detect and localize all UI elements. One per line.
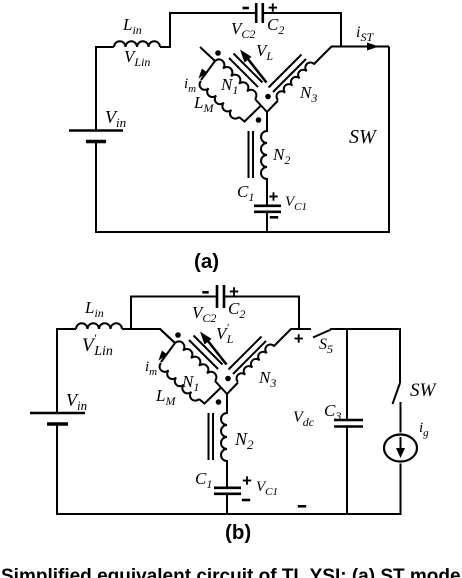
wire top-left vertical (a)	[169, 13, 171, 48]
wire left vertical upper (a)	[95, 46, 97, 130]
winding N2 (a)	[261, 131, 267, 179]
label (a)	[194, 250, 219, 273]
core bars N2 (a)	[249, 131, 254, 178]
wire top bus right segment (a)	[263, 12, 342, 14]
wire Lm bottom corner (b)	[199, 388, 221, 404]
svg-text:SW: SW	[410, 380, 438, 401]
svg-text:(a): (a)	[194, 250, 219, 273]
label + polarity of C2 (a)	[269, 3, 277, 11]
label im (b)	[145, 359, 157, 378]
winding N1 (a)	[215, 59, 256, 99]
winding N3 (b)	[237, 345, 274, 382]
switch S5 blade (b)	[313, 330, 331, 338]
svg-text:(b): (b)	[225, 521, 251, 544]
polarity dot N2 (a)	[256, 117, 262, 123]
wire junction to transformer (b)	[131, 329, 175, 343]
winding N2 (b)	[221, 413, 227, 461]
wire bottom bus (a)	[95, 231, 390, 233]
label + polarity of C2 (b)	[230, 287, 238, 295]
label N2 (b)	[234, 429, 254, 452]
core bars N3 (b)	[229, 337, 267, 375]
wire stub to N1 top (b)	[160, 329, 175, 343]
wire N3 to top corner (a)	[314, 47, 332, 65]
wire N1 to center (b)	[215, 381, 227, 394]
label im (a)	[184, 76, 196, 95]
current source ig arrow (b)	[396, 437, 405, 458]
label LM (b)	[155, 386, 176, 408]
label Lin (b)	[84, 298, 104, 320]
label SW (a)	[349, 126, 378, 148]
label - polarity of C1 (b)	[242, 499, 250, 502]
label VLin (b)	[82, 331, 113, 359]
wire Lm bottom corner (a)	[239, 106, 261, 122]
inductor Lin (b)	[57, 323, 132, 329]
label - polarity Vdc (b)	[298, 505, 306, 508]
label N3 (a)	[299, 83, 317, 105]
label C3 (b)	[324, 401, 341, 423]
label Vin (b)	[66, 390, 87, 413]
label VLin (a)	[124, 47, 150, 69]
capacitor C1 (b)	[214, 488, 241, 494]
label N2 (a)	[272, 145, 290, 167]
label (b)	[225, 521, 251, 544]
wire N2 to C1 (a)	[266, 178, 268, 206]
wire top-right vertical (a)	[340, 12, 342, 47]
core bars N3 (a)	[269, 55, 307, 93]
wire Lm left edge with im arrow (a)	[201, 61, 215, 80]
label - polarity of C1 (a)	[270, 216, 278, 219]
polarity dot N1 (a)	[215, 50, 221, 56]
label VC1 (b)	[256, 479, 278, 498]
capacitor C1 (a)	[254, 206, 281, 212]
wire center to N3 (a)	[267, 101, 278, 113]
label VC2 (a)	[231, 19, 255, 41]
label - polarity of C2 (b)	[202, 291, 208, 294]
voltage arrow VL (b)	[200, 332, 227, 365]
wire left vertical (b)	[56, 328, 58, 413]
wire N1 to center (a)	[255, 99, 267, 112]
winding N1 (b)	[175, 341, 216, 381]
wire source to bottom bus (b)	[400, 464, 402, 516]
label VL (a)	[256, 41, 273, 63]
wire SW to source (b)	[400, 402, 402, 433]
wire Lm left edge with im arrow (b)	[161, 343, 175, 362]
wire right vertical SW (a)	[388, 47, 390, 234]
label C1 (a)	[237, 182, 254, 204]
wire top bus left segment (a)	[169, 12, 256, 14]
label S5 (b)	[319, 336, 333, 356]
label N1 (b)	[181, 372, 199, 394]
wire C1 to bottom bus (b)	[226, 494, 228, 515]
core bars N2 (b)	[209, 413, 214, 460]
label ig (b)	[419, 420, 429, 439]
winding Lm (magnetizing) (b)	[160, 363, 199, 401]
wire center to N2 (a)	[266, 112, 268, 132]
wire S5 to right branch (b)	[330, 328, 400, 330]
switch SW blade (b)	[393, 383, 401, 404]
label Vin (a)	[105, 107, 126, 130]
winding Lm (magnetizing) (a)	[200, 81, 239, 119]
wire top-right vertical (b)	[298, 296, 300, 330]
label VC2 (b)	[192, 303, 216, 325]
wire center to N2 (b)	[226, 394, 228, 414]
label VL (b)	[216, 322, 234, 346]
label C2 (b)	[228, 299, 245, 321]
capacitor C2 (b)	[217, 285, 224, 308]
wire N3 to top corner (b)	[274, 329, 292, 347]
label - polarity of C2 (a)	[243, 7, 249, 10]
capacitor C2 (a)	[256, 3, 263, 23]
label C2 (a)	[267, 15, 284, 37]
label iST (a)	[356, 24, 374, 44]
wire N2 to C1 (b)	[226, 460, 228, 488]
label + polarity Vdc (b)	[295, 334, 303, 342]
wire left vertical top (b)	[130, 296, 132, 331]
battery Vin (a)	[69, 131, 123, 142]
wire N3 to S5 contact (b)	[291, 328, 311, 330]
capacitor C3 (b)	[334, 420, 363, 427]
label SW (b)	[410, 380, 438, 401]
voltage arrow VL (a)	[240, 50, 267, 83]
polarity dot N2 (b)	[216, 399, 222, 405]
polarity dot N1 (b)	[175, 332, 181, 338]
caption	[1, 566, 462, 578]
wire top bus left segment (b)	[130, 296, 217, 298]
label Vdc (b)	[293, 409, 315, 429]
label N3 (b)	[258, 368, 276, 390]
wire left vertical lower (a)	[95, 142, 97, 234]
label Lin (a)	[122, 15, 142, 37]
wire C1 to bottom bus (a)	[266, 212, 268, 233]
wire top bus right segment (b)	[224, 296, 300, 298]
wire right vertical upper (b)	[399, 328, 401, 383]
wire C3 branch upper (b)	[346, 328, 348, 420]
current source ig circle (b)	[384, 435, 417, 462]
wire bottom bus (b)	[56, 513, 401, 515]
wire left vertical lower (b)	[56, 424, 58, 515]
label C1 (b)	[195, 469, 212, 491]
label VC1 (a)	[285, 194, 307, 213]
current arrow iST (a)	[367, 43, 379, 51]
wire stub to N1 top (a)	[200, 47, 215, 61]
battery Vin (b)	[30, 413, 85, 424]
current arrow im (a)	[199, 69, 208, 79]
current arrow im (b)	[159, 351, 168, 361]
polarity dot center (N3) (a)	[265, 94, 271, 100]
wire C3 branch lower (b)	[346, 427, 348, 516]
inductor Lin (a)	[96, 41, 171, 47]
label + polarity of C1 (a)	[269, 192, 277, 200]
label N1 (a)	[220, 75, 238, 97]
core bars N1 (b)	[189, 336, 223, 370]
svg-text:SW: SW	[349, 126, 378, 148]
label + polarity of C1 (b)	[243, 476, 251, 484]
label LM (a)	[193, 93, 214, 115]
core bars N1 (a)	[229, 54, 263, 88]
wire center to N3 (b)	[227, 383, 238, 395]
winding N3 (a)	[277, 63, 314, 100]
polarity dot center (N3) (b)	[225, 376, 231, 382]
wire iST segment (a)	[331, 46, 389, 48]
svg-text:Simplified equivalent circuit: Simplified equivalent circuit of TL YSI:…	[1, 566, 462, 578]
